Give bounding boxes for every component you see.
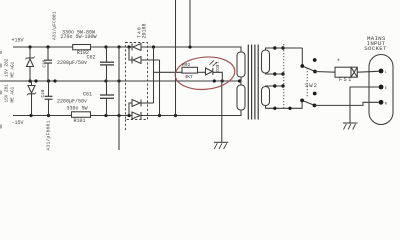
svg-text:C62: C62 [87, 55, 96, 61]
svg-text:A31/µFC001: A31/µFC001 [52, 11, 58, 40]
LED LED3 [206, 61, 217, 76]
node transformer tap terminals [273, 46, 292, 110]
annotation red ellipse [174, 55, 236, 92]
svg-text:R101: R101 [74, 118, 86, 124]
node SW2a contacts [300, 58, 317, 73]
svg-text:4K7: 4K7 [185, 74, 194, 80]
wire secondary center tap [240, 77, 242, 85]
wire AC drop x=159.5 to bottom rail [159, 60, 161, 116]
wire SW2b to N pin [315, 102, 379, 105]
svg-text:L: L [385, 71, 387, 75]
wire bottom rail right of D4 to transformer [141, 110, 241, 116]
switch SW2 mechanical dotted link [306, 68, 308, 97]
ground (chassis earth) [343, 123, 358, 130]
wire primary W2 bottom terminal [266, 100, 303, 108]
svg-text:C39: C39 [43, 59, 48, 67]
svg-text:2200µF/50v: 2200µF/50v [57, 60, 87, 66]
node center rail junctions [28, 79, 241, 82]
wire primary W2 top terminal [266, 85, 284, 88]
svg-text:ME AG1: ME AG1 [11, 86, 16, 102]
wire top rail right of D1 to transformer [141, 47, 241, 52]
wire off-page vertical x=190 [189, 0, 191, 47]
svg-text:-15V: -15V [12, 120, 24, 126]
svg-text:330o 5W: 330o 5W [67, 106, 88, 112]
capacitor C61 [100, 81, 114, 116]
wire AC tap x=153.5 [153, 47, 155, 103]
svg-text:270o 5W-100W: 270o 5W-100W [61, 34, 97, 40]
svg-text:+15V: +15V [12, 37, 24, 43]
svg-text:E: E [385, 87, 387, 91]
rectifier dashed outline [126, 43, 148, 120]
node bottom rail junctions [29, 114, 177, 117]
svg-text:SW2: SW2 [305, 82, 318, 89]
svg-text:LED3: LED3 [214, 62, 219, 73]
wire AC drop line x=119 [118, 47, 120, 150]
wire top +15V rail [13, 46, 132, 48]
svg-text:FS1: FS1 [339, 77, 353, 83]
svg-text:20188: 20188 [142, 23, 148, 38]
zener Z02 [26, 47, 35, 81]
wire earth pin to ground [350, 87, 379, 123]
resistor R102 [73, 45, 91, 50]
svg-text:*: * [337, 58, 341, 65]
diode D1 [132, 44, 141, 51]
svg-text:2200µF/50v: 2200µF/50v [57, 98, 87, 104]
wire bottom -15V rail [13, 115, 132, 117]
scan edge artifacts [0, 51, 2, 129]
svg-text:N: N [385, 102, 387, 106]
svg-text:15V Z01: 15V Z01 [5, 84, 10, 103]
svg-text:SOCKET: SOCKET [364, 45, 387, 52]
svg-text:R02: R02 [182, 62, 191, 68]
svg-text:15V Z02: 15V Z02 [5, 58, 10, 77]
svg-text:C61: C61 [83, 92, 92, 98]
wire LED3 cathode down [213, 72, 223, 81]
wire primary W1 bottom terminal [266, 73, 284, 74]
svg-text:ME AG1: ME AG1 [11, 61, 16, 77]
switch SW2 pole a [302, 48, 315, 72]
capacitor C40 [45, 81, 53, 116]
transformer T1 primary winding upper [262, 50, 270, 73]
wire R02 feed [154, 71, 183, 73]
transformer T1 primary winding lower [262, 87, 270, 106]
svg-text:T40: T40 [136, 26, 142, 38]
wire bridge left stub upper [129, 47, 132, 60]
capacitor C39 [44, 47, 52, 81]
node socket pin L [379, 69, 384, 74]
transformer T1 secondary winding upper [237, 52, 245, 77]
transformer T1 secondary winding lower [237, 85, 245, 110]
wire primary W1 top terminal [266, 48, 303, 50]
ground (0V rail) [214, 81, 228, 149]
capacitor C62 [100, 47, 114, 81]
wire R02 to LED3 [198, 71, 206, 73]
transformer T1 core [248, 45, 258, 120]
fuse FS1 [335, 67, 351, 77]
node top rail junctions [28, 45, 191, 48]
diode D2 [132, 57, 160, 64]
wire SW2a to fuse [315, 71, 335, 74]
diode D4 [132, 112, 141, 119]
node socket pin N [379, 100, 384, 105]
resistor R101 [72, 112, 91, 118]
dashed line below rectifier [125, 120, 127, 132]
wire 0V center rail [0, 80, 241, 82]
node SW2b contacts [300, 92, 316, 108]
svg-text:C40: C40 [41, 89, 46, 97]
connector pin (fuse to socket live) [351, 67, 357, 77]
zener Z01 [27, 81, 36, 116]
mains input socket outline [369, 55, 393, 125]
wire fuse to L pin [357, 70, 378, 73]
svg-text:A31/µF0001: A31/µF0001 [46, 120, 52, 150]
switch SW2 pole b [302, 100, 314, 105]
wire off-page vertical x=175.5 [175, 0, 177, 116]
voltage selector dotted link [283, 44, 285, 110]
resistor R02 [182, 67, 198, 73]
diode D3 [132, 100, 154, 107]
wire bridge left stub lower [129, 103, 132, 116]
node socket pin E [379, 85, 384, 90]
